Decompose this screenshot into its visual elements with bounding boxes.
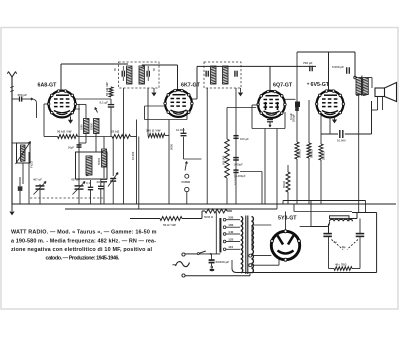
svg-text:467 pF: 467 pF	[33, 178, 42, 182]
svg-text:10.000pF: 10.000pF	[234, 173, 238, 185]
svg-text:FONO: FONO	[182, 180, 191, 184]
svg-text:125: 125	[228, 237, 233, 241]
svg-text:8μ: 8μ	[334, 240, 338, 244]
svg-text:50000: 50000	[97, 157, 101, 165]
svg-text:250 pF: 250 pF	[18, 93, 28, 97]
svg-text:50 kΩ ½W: 50 kΩ ½W	[57, 130, 72, 134]
svg-text:500kΩ: 500kΩ	[298, 149, 302, 158]
svg-text:8μ: 8μ	[342, 245, 346, 249]
svg-text:0,1 μF: 0,1 μF	[100, 101, 109, 105]
svg-text:10.000: 10.000	[176, 128, 185, 132]
svg-text:700 pF: 700 pF	[303, 61, 313, 65]
svg-text:5Y3-GT: 5Y3-GT	[278, 215, 297, 221]
svg-text:500kΩ: 500kΩ	[310, 149, 314, 158]
svg-text:+: +	[307, 81, 310, 86]
svg-text:FILO: FILO	[30, 161, 34, 168]
svg-text:50 kΩ 1W: 50 kΩ 1W	[105, 82, 109, 96]
svg-text:100 μF: 100 μF	[240, 137, 249, 141]
svg-text:50 Ω ½W: 50 Ω ½W	[163, 223, 176, 227]
svg-text:1000pF: 1000pF	[234, 162, 244, 166]
svg-text:320 Ω ½W: 320 Ω ½W	[146, 129, 161, 133]
svg-text:a 190-580 m. - Media frequenza: a 190-580 m. - Media frequenza: 482 kHz.…	[11, 238, 156, 244]
svg-text:10.000: 10.000	[131, 151, 135, 160]
svg-text:0,1μF: 0,1μF	[289, 113, 293, 120]
svg-text:250kΩ: 250kΩ	[322, 151, 326, 160]
svg-text:50/100 μF: 50/100 μF	[216, 260, 230, 264]
svg-text:WATT RADIO. — Mod. « Taurus »,: WATT RADIO. — Mod. « Taurus », — Gamme: …	[11, 230, 157, 236]
svg-text:110: 110	[228, 245, 233, 249]
svg-text:6Q7-GT: 6Q7-GT	[273, 83, 293, 89]
svg-text:140: 140	[228, 230, 233, 234]
svg-text:52000: 52000	[90, 122, 93, 130]
svg-text:22 kΩ: 22 kΩ	[111, 130, 120, 134]
svg-text:6V5-GT: 6V5-GT	[311, 82, 330, 88]
svg-text:220: 220	[228, 216, 233, 220]
svg-text:5.000 pF: 5.000 pF	[332, 65, 344, 69]
svg-text:50kΩ: 50kΩ	[282, 180, 286, 188]
svg-text:0,1: 0,1	[86, 181, 90, 185]
svg-text:catodo. — Produzione: 1945-194: catodo. — Produzione: 1945-1946.	[46, 256, 120, 262]
svg-text:10.000: 10.000	[337, 139, 346, 143]
svg-text:500.000: 500.000	[221, 155, 225, 165]
svg-text:160: 160	[228, 223, 233, 227]
svg-text:6K7-GT: 6K7-GT	[181, 83, 201, 89]
svg-text:1000: 1000	[80, 124, 83, 130]
svg-text:50pF: 50pF	[68, 146, 74, 150]
svg-text:6A8-GT: 6A8-GT	[38, 83, 58, 89]
svg-text:5000: 5000	[169, 144, 173, 150]
svg-text:zione negativa con elettroliti: zione negativa con elettrolitico di 10 M…	[11, 247, 152, 253]
svg-text:5000 Ω: 5000 Ω	[204, 215, 214, 219]
